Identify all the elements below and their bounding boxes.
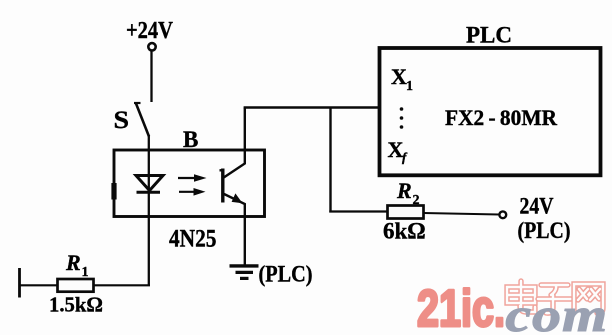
left terminal bar xyxy=(18,268,21,298)
svg-text:+24V: +24V xyxy=(126,18,174,44)
LED anode wire through box xyxy=(148,174,150,286)
watermark CJK 子 xyxy=(538,285,571,313)
resistor R2 xyxy=(388,206,424,219)
phototransistor base bar xyxy=(221,169,224,203)
LED cathode bar xyxy=(137,191,161,194)
phototransistor collector lead xyxy=(223,108,245,179)
svg-text:2: 2 xyxy=(413,193,420,208)
svg-text:FX2 - 80MR: FX2 - 80MR xyxy=(445,105,558,130)
phototransistor emitter lead xyxy=(223,194,245,265)
svg-text:X: X xyxy=(391,64,407,89)
svg-text:1: 1 xyxy=(406,79,413,94)
svg-text:1: 1 xyxy=(82,265,89,280)
svg-text:S: S xyxy=(114,107,130,134)
light arrow upper xyxy=(178,174,207,182)
LED triangle xyxy=(136,176,163,191)
terminal 24V (PLC) xyxy=(499,211,506,218)
svg-text:R: R xyxy=(396,178,412,203)
ground bar 2 xyxy=(236,271,254,274)
watermark CJK 电 xyxy=(507,281,535,312)
svg-text:com: com xyxy=(505,288,608,335)
wire LED cathode down to R1 row xyxy=(19,284,151,286)
wire junction to R2 xyxy=(329,210,387,212)
svg-text:(PLC): (PLC) xyxy=(259,262,313,287)
light arrow lower xyxy=(179,188,206,196)
svg-text:B: B xyxy=(183,127,198,152)
svg-text:R: R xyxy=(65,250,81,275)
watermark CJK 网 xyxy=(574,284,603,313)
svg-text:6kΩ: 6kΩ xyxy=(383,219,426,244)
svg-text:PLC: PLC xyxy=(466,23,512,48)
wire from +24V terminal down to switch xyxy=(150,51,152,103)
optocoupler box B (4N25) xyxy=(114,150,265,217)
terminal +24V xyxy=(148,43,155,50)
wire from switch into optocoupler box xyxy=(148,135,150,176)
ground bar 3 xyxy=(240,277,249,280)
resistor R1 xyxy=(58,279,94,292)
switch S top contact tick xyxy=(134,102,141,104)
svg-text:21ic.: 21ic. xyxy=(417,280,505,335)
svg-text:24V: 24V xyxy=(520,194,554,219)
ground bar 1 xyxy=(230,264,259,267)
wire R2 to 24V terminal xyxy=(424,213,500,215)
switch S blade xyxy=(136,104,149,137)
svg-text:1.5kΩ: 1.5kΩ xyxy=(49,293,103,317)
base bar top nub xyxy=(220,169,224,171)
vertical dots xyxy=(400,107,404,111)
emitter arrowhead xyxy=(232,193,243,203)
svg-text:(PLC): (PLC) xyxy=(518,218,571,243)
thick blob on box left edge xyxy=(111,183,116,200)
PLC box xyxy=(380,48,601,175)
node T-junction at x=330 xyxy=(329,108,331,213)
wire collector to PLC input xyxy=(244,106,379,108)
svg-text:4N25: 4N25 xyxy=(169,224,217,253)
